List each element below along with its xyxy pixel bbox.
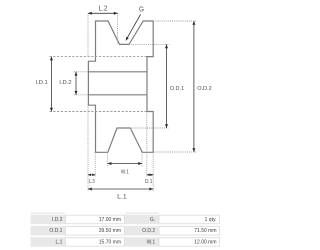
svg-text:O.D.2: O.D.2 [142,228,155,234]
svg-text:W.1: W.1 [147,239,156,245]
table row 1 value cell 17.00 mm [66,215,125,224]
extension line L.3 right vertical [94,152,96,177]
leader G arrow [126,15,140,40]
svg-text:I.D.1: I.D.1 [36,80,48,86]
extension line left vertical bottom (L.3/L.1 left) [87,105,89,190]
table row 1 label cell I.D.2 [31,215,66,225]
dimension L.2 line [88,12,118,14]
svg-text:G: G [139,7,144,14]
dimension L.3 line [88,174,95,176]
svg-text:15.70 mm: 15.70 mm [99,239,121,245]
dimension D.1 line [147,174,153,176]
extension line I.D.2 bottom horizontal [74,94,88,96]
extension line trapezoid top horizontal (O.D.1 bottom) [130,127,168,129]
extension line D.1 left vertical [146,112,148,178]
extension line I.D.2 top horizontal [74,71,88,73]
extension line W.1 left vertical [107,152,109,166]
dimension W.1 line [108,163,142,165]
table top faint border left label column [31,212,66,214]
svg-text:L.1: L.1 [117,195,127,201]
dimension I.D.2 line [75,72,77,95]
table row 2 label cell O.D.1 [31,226,66,236]
svg-text:39.50 mm: 39.50 mm [99,228,121,234]
extension line left vertical top (L.2 left) [87,13,89,56]
table row 3 value cell 15.70 mm [66,238,125,247]
svg-text:1 qty.: 1 qty. [205,217,217,223]
table top faint border right label column [125,212,159,214]
table row 2 value cell 71.50 mm [159,227,220,236]
hidden line I.D.1 bottom (dashed) [50,111,148,113]
svg-text:W.1: W.1 [121,170,129,176]
svg-text:I.D.2: I.D.2 [52,217,63,223]
svg-text:12.00 mm: 12.00 mm [194,239,216,245]
svg-text:D.1: D.1 [145,179,153,185]
extension line L.2 right vertical [117,13,119,44]
dimension O.D.2 line [193,21,195,152]
table row 3 label cell W.1 [125,237,159,247]
hidden line I.D.1 top (dashed) [50,56,148,58]
extension line D.1/L.1 right vertical [152,152,154,191]
svg-text:17.00 mm: 17.00 mm [99,217,121,223]
bore line top (I.D.2) [88,71,147,73]
svg-text:O.D.1: O.D.1 [49,228,62,234]
pulley cross-section outline [88,21,153,152]
extension line O.D.2 bottom horizontal [153,151,196,153]
extension line groove bottom horizontal (O.D.1 top) [129,43,170,45]
svg-text:G.: G. [150,217,155,223]
extension line O.D.2 top horizontal [153,20,196,22]
svg-text:I.D.2: I.D.2 [59,80,71,86]
table row 3 label cell L.1 [31,237,66,247]
dimension L.1 line [88,188,153,190]
svg-text:L.3: L.3 [89,179,95,185]
table row 3 value cell 12.00 mm [159,238,220,247]
bore line bottom (I.D.2) [88,94,147,96]
table row 2 value cell 39.50 mm [66,227,125,236]
svg-text:O.D.1: O.D.1 [170,86,184,92]
table row 1 label cell G. [125,215,159,225]
table row 2 label cell O.D.2 [125,226,159,236]
svg-text:L.1: L.1 [55,239,62,245]
extension line W.1 right vertical [141,152,143,166]
dimension O.D.1 line [166,44,168,128]
dimension I.D.1 line [50,57,52,112]
table row 1 value cell 1 qty. [159,215,220,224]
svg-text:L.2: L.2 [99,5,108,12]
svg-text:71.50 mm: 71.50 mm [194,228,216,234]
svg-text:O.D.2: O.D.2 [197,86,212,92]
